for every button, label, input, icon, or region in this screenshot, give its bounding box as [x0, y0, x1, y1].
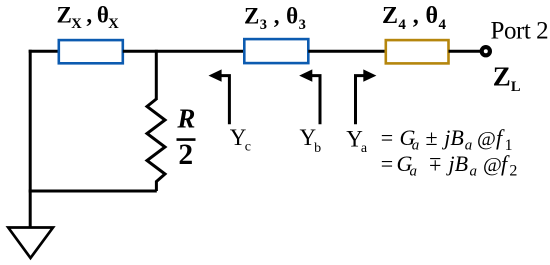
svg-text:±: ± — [426, 125, 438, 150]
svg-text:Z4 , θ4: Z4 , θ4 — [382, 3, 446, 33]
transmission line Z4 — [386, 40, 449, 63]
svg-text:a: a — [412, 138, 420, 154]
svg-text:jB: jB — [441, 125, 464, 150]
ground — [8, 228, 53, 259]
port 2 terminal — [482, 47, 490, 55]
svg-text:=: = — [381, 151, 393, 176]
svg-text:=: = — [381, 125, 393, 150]
resistor R/2 — [147, 99, 165, 191]
admittance arrow Ya — [356, 69, 377, 124]
admittance arrow Yb — [299, 69, 320, 124]
wire: left vertical branch — [29, 50, 32, 228]
equation line 2: = Ga - jBa at f2 — [381, 151, 518, 180]
svg-text:2: 2 — [509, 163, 517, 180]
transmission line ZX — [59, 40, 123, 63]
svg-text:@: @ — [477, 128, 496, 150]
wire: input stub left of ZX — [29, 50, 59, 53]
transmission line Z3 — [244, 39, 308, 63]
svg-text:a: a — [470, 163, 478, 179]
admittance arrow Yc — [209, 69, 230, 124]
svg-text:a: a — [410, 163, 418, 179]
svg-text:±: ± — [429, 153, 441, 178]
wire: bottom return to resistor — [29, 190, 157, 193]
equation line 1: = Ga + jBa at f1 — [381, 125, 513, 154]
wire: node A segment ZX to Z3 — [123, 50, 244, 53]
svg-text:jB: jB — [446, 151, 469, 176]
label R/2 value — [176, 104, 195, 172]
svg-text:Port 2: Port 2 — [491, 18, 549, 45]
svg-text:R: R — [176, 104, 195, 134]
wire: shunt branch down from node A — [155, 50, 158, 100]
wire: segment Z3 to Z4 — [308, 50, 386, 53]
wire: segment Z4 to port 2 — [449, 50, 482, 53]
svg-text:@: @ — [483, 154, 502, 176]
svg-text:2: 2 — [178, 139, 193, 171]
